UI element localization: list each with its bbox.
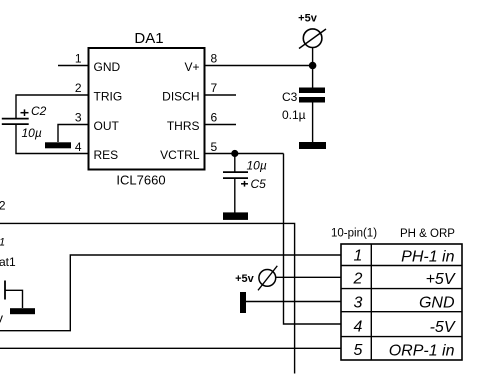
capacitor C3 plates	[299, 88, 325, 103]
svg-text:TRIG: TRIG	[94, 90, 123, 104]
svg-text:4: 4	[75, 140, 82, 154]
battery bat1 plate	[4, 281, 6, 300]
pin label GND	[94, 60, 121, 74]
svg-text:1: 1	[354, 248, 363, 265]
svg-text:+5v: +5v	[298, 13, 318, 25]
wire pin1 GND stub	[58, 65, 88, 67]
wire GND row	[246, 301, 341, 303]
table pin number 4	[354, 319, 363, 336]
table pin number 1	[354, 248, 363, 265]
pin label THRS	[167, 119, 200, 133]
wire VCTRL to C5	[234, 154, 236, 172]
svg-text:1: 1	[0, 237, 5, 249]
wire +5v stem	[312, 48, 314, 66]
cut label 2	[0, 199, 6, 213]
power port +5v top label	[298, 13, 318, 25]
svg-text:GND: GND	[419, 295, 455, 312]
svg-text:at1: at1	[0, 255, 16, 269]
wire battery to ground	[5, 290, 23, 308]
cut label bat1	[0, 255, 16, 269]
pin number 1	[75, 52, 82, 66]
svg-text:V+: V+	[184, 60, 199, 74]
pin number 5	[211, 140, 218, 154]
capacitor C2 value 10u	[22, 126, 42, 140]
cut label 1	[0, 237, 5, 249]
svg-text:GND: GND	[94, 60, 121, 74]
wire left net to PH-1 in row	[0, 255, 341, 331]
wire C5 to ground	[234, 179, 236, 213]
wire pin2 TRIG to C2	[16, 95, 88, 118]
table label GND	[419, 295, 455, 312]
connector table column line	[370, 244, 372, 360]
junction dot at V+	[309, 62, 317, 70]
pin number 7	[211, 81, 218, 95]
pin number 4	[75, 140, 82, 154]
capacitor C5 value 10u	[247, 159, 267, 173]
junction dot at VCTRL	[231, 150, 238, 157]
table label +5V	[426, 271, 456, 288]
svg-text:3: 3	[354, 295, 363, 312]
wire pin8 V+	[205, 65, 313, 67]
svg-text:+5V: +5V	[426, 271, 456, 288]
wire +5V row	[276, 276, 341, 278]
svg-text:RES: RES	[94, 148, 119, 162]
capacitor C3 label	[282, 90, 298, 104]
svg-text:4: 4	[354, 319, 363, 336]
capacitor C5 plates	[223, 172, 248, 178]
pin label RES	[94, 148, 119, 162]
svg-text:10µ: 10µ	[247, 159, 267, 173]
pin label OUT	[94, 119, 120, 133]
svg-text:v: v	[0, 311, 4, 326]
wire C3 to ground	[312, 103, 314, 143]
svg-text:OUT: OUT	[94, 119, 120, 133]
pin label TRIG	[94, 90, 123, 104]
svg-text:5: 5	[211, 140, 218, 154]
IC DA1 name label	[134, 30, 163, 47]
table label PH-1 in	[401, 249, 454, 266]
header 10-pin(1)	[331, 228, 377, 240]
pin label VCTRL	[160, 148, 200, 162]
svg-text:PH & ORP: PH & ORP	[400, 228, 455, 240]
capacitor C5 plus sign	[241, 181, 248, 187]
capacitor C2 plus sign	[21, 109, 29, 116]
ground bar at OUT	[45, 142, 71, 148]
pin number 6	[211, 111, 218, 125]
wire pin3 OUT to ground	[58, 125, 88, 143]
table pin number 5	[354, 342, 363, 359]
svg-text:THRS: THRS	[167, 119, 200, 133]
svg-text:DA1: DA1	[134, 30, 163, 47]
ground bar below C3	[299, 142, 326, 149]
IC DA1 type label ICL7660	[116, 173, 165, 188]
table pin number 2	[353, 271, 363, 288]
svg-text:5: 5	[354, 342, 363, 359]
wire ORP-1 in row	[0, 347, 341, 349]
ground bar vertical at GND row	[240, 292, 246, 313]
capacitor C3 value 0.1u	[282, 108, 306, 122]
power port +5v bottom label	[235, 273, 255, 285]
wire V+ to C3	[312, 66, 314, 89]
wire pin5 VCTRL	[205, 153, 284, 155]
power port +5v top circle	[299, 29, 326, 49]
capacitor C2 label	[31, 104, 47, 118]
pin label DISCH	[162, 90, 199, 104]
table label -5V	[430, 319, 456, 336]
svg-text:7: 7	[211, 81, 218, 95]
svg-text:0.1µ: 0.1µ	[282, 108, 306, 122]
svg-text:8: 8	[211, 52, 218, 66]
ground bar below C5	[223, 212, 248, 220]
svg-text:C5: C5	[251, 177, 267, 191]
capacitor C2 plates	[2, 119, 29, 125]
capacitor C5 label	[251, 177, 267, 191]
svg-text:+5v: +5v	[235, 273, 255, 285]
svg-text:10-pin(1): 10-pin(1)	[331, 228, 377, 240]
svg-text:PH-1 in: PH-1 in	[401, 249, 454, 266]
svg-text:1: 1	[75, 52, 82, 66]
ground bar below battery	[10, 308, 35, 314]
table pin number 3	[354, 295, 363, 312]
wire pin4 RES to C2	[16, 125, 88, 154]
connector table row lines	[341, 266, 462, 337]
header PH & ORP	[400, 228, 455, 240]
svg-text:6: 6	[211, 111, 218, 125]
svg-text:10µ: 10µ	[22, 126, 42, 140]
svg-text:DISCH: DISCH	[162, 90, 199, 104]
wire net VCTRL down to -5V row	[284, 154, 342, 325]
wire long horizontal net	[0, 223, 295, 373]
svg-text:ORP-1 in: ORP-1 in	[389, 343, 455, 360]
table label ORP-1 in	[389, 343, 455, 360]
svg-text:-5V: -5V	[430, 319, 456, 336]
svg-text:C2: C2	[31, 104, 47, 118]
svg-text:3: 3	[75, 111, 82, 125]
svg-text:2: 2	[75, 81, 82, 95]
IC DA1 body	[89, 48, 205, 170]
connector table outline	[341, 244, 462, 360]
wire pin7 DISCH stub	[205, 94, 236, 96]
svg-text:2: 2	[353, 271, 363, 288]
pin label V+	[184, 60, 199, 74]
cut label v	[0, 311, 4, 326]
svg-text:ICL7660: ICL7660	[116, 173, 165, 188]
svg-text:2: 2	[0, 199, 6, 213]
pin number 8	[211, 52, 218, 66]
wire pin6 THRS stub	[205, 124, 236, 126]
svg-text:VCTRL: VCTRL	[160, 148, 200, 162]
svg-text:C3: C3	[282, 90, 298, 104]
power port +5v bottom circle	[258, 266, 277, 291]
pin number 2	[75, 81, 82, 95]
pin number 3	[75, 111, 82, 125]
